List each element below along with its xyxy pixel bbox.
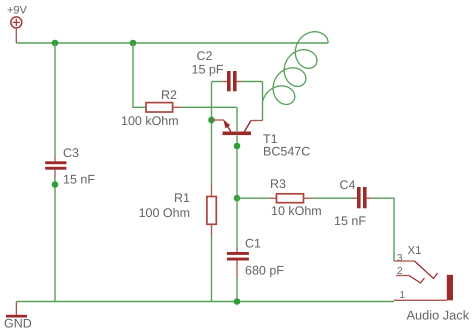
svg-text:15 nF: 15 nF xyxy=(334,214,366,228)
supply +9V xyxy=(7,5,28,44)
wire: C4 to audio jack pin 3 xyxy=(372,198,395,261)
junction: R3 tap node xyxy=(234,195,241,202)
wire: node to C1 xyxy=(236,198,238,247)
junction: rail / R2 branch xyxy=(130,40,137,47)
inductor coil (antenna) xyxy=(263,32,328,105)
capacitor C2 xyxy=(192,49,242,91)
wire: node to R3 xyxy=(237,197,269,199)
wire: R1 to ground rail xyxy=(211,237,213,302)
svg-text:C3: C3 xyxy=(63,146,79,160)
resistor R1 xyxy=(139,185,217,237)
svg-text:100 Ohm: 100 Ohm xyxy=(139,206,190,220)
svg-text:15 pF: 15 pF xyxy=(192,63,224,77)
svg-text:R2: R2 xyxy=(161,88,177,102)
resistor R3 xyxy=(269,177,322,218)
svg-text:10 kOhm: 10 kOhm xyxy=(271,204,322,218)
svg-text:C2: C2 xyxy=(197,49,213,63)
svg-text:C1: C1 xyxy=(245,237,261,251)
sleeve bar xyxy=(447,275,453,301)
svg-text:BC547C: BC547C xyxy=(263,145,310,159)
wire: C3 branch down from rail xyxy=(54,43,56,156)
svg-text:Audio Jack: Audio Jack xyxy=(407,308,470,323)
svg-text:3: 3 xyxy=(397,253,403,264)
wire: +9V top rail xyxy=(16,42,328,44)
junction: emitter node xyxy=(208,117,215,124)
wire: C3 to ground rail xyxy=(54,178,56,302)
svg-text:GND: GND xyxy=(4,317,32,331)
wire: R2 output to T1 base xyxy=(182,106,238,108)
junction: C3 bottom pin xyxy=(52,181,59,188)
capacitor C1 xyxy=(227,237,284,279)
wire: R3 to C4 xyxy=(313,197,353,199)
wire: R2 branch down from rail xyxy=(133,43,146,107)
wire: C2/emitter/R1 vertical xyxy=(211,82,213,185)
capacitor C4 xyxy=(334,178,372,228)
wire: C2 right plate to collector line xyxy=(242,81,263,83)
wire: below T1 to node xyxy=(236,136,238,199)
capacitor C3 xyxy=(45,146,95,187)
wire: collector vertical xyxy=(262,82,264,121)
resistor R2 xyxy=(121,88,182,128)
junction: below transistor xyxy=(234,143,241,150)
svg-text:680 pF: 680 pF xyxy=(245,264,284,278)
svg-text:R1: R1 xyxy=(174,191,190,205)
svg-text:100 kOhm: 100 kOhm xyxy=(121,114,179,128)
svg-text:C4: C4 xyxy=(340,178,356,192)
svg-text:X1: X1 xyxy=(408,245,422,257)
svg-text:R3: R3 xyxy=(270,177,286,191)
wire: T1 base vertical xyxy=(236,107,238,131)
wire: elbow to C2 left plate xyxy=(212,81,223,83)
wire: ground rail xyxy=(16,301,394,303)
junction: C1 / ground rail xyxy=(234,298,241,305)
connector X1 audio jack xyxy=(394,245,470,323)
wire: C1 to ground rail xyxy=(236,278,238,302)
svg-text:+9V: +9V xyxy=(7,5,28,17)
svg-text:15 nF: 15 nF xyxy=(63,173,95,187)
junction: rail / C3 branch xyxy=(52,40,59,47)
svg-text:1: 1 xyxy=(400,290,406,301)
transistor T1 xyxy=(212,120,311,159)
ground GND xyxy=(4,302,32,331)
